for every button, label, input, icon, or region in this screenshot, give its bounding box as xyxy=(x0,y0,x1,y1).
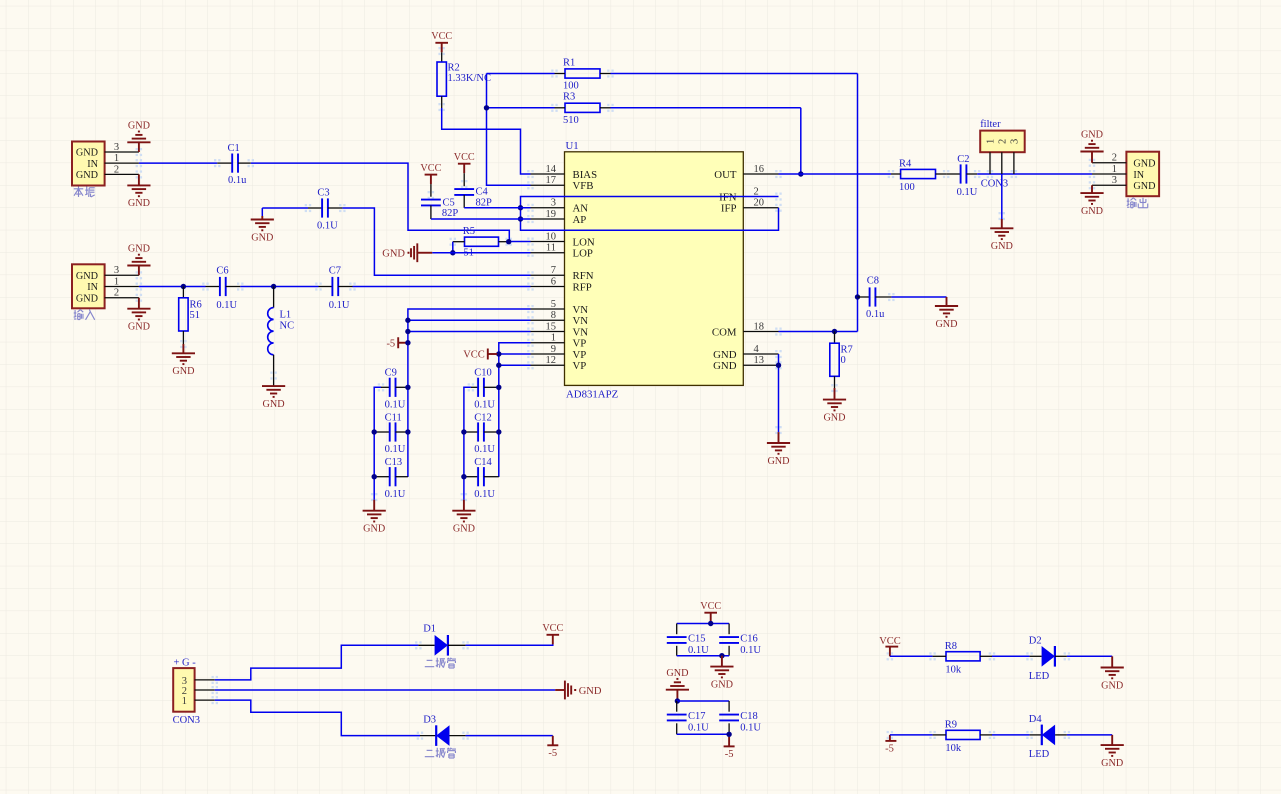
wire D2 to GND xyxy=(1067,656,1112,667)
resistor R3 510 xyxy=(555,92,611,126)
U1 pin 7 RFN (left) xyxy=(531,265,594,282)
wire LOP to pin11 xyxy=(432,252,530,254)
svg-text:GND: GND xyxy=(1101,758,1123,769)
connector 输出 (output) box xyxy=(1126,152,1159,197)
resistor R9 10k xyxy=(933,720,992,755)
svg-text:LOP: LOP xyxy=(573,248,593,260)
输入 pin 1 xyxy=(105,276,139,287)
wire CON3 pin2 to GND xyxy=(215,689,555,691)
CON3 pin 1 stub xyxy=(195,699,215,701)
wire R5 left to LOP net xyxy=(452,242,454,253)
svg-text:GND: GND xyxy=(363,524,385,535)
svg-text:20: 20 xyxy=(754,198,765,209)
ground GND right of C8 xyxy=(935,306,958,330)
power port -5 (D3) xyxy=(547,736,558,759)
svg-text:0.1U: 0.1U xyxy=(385,489,406,500)
svg-text:6: 6 xyxy=(551,276,556,287)
svg-text:-5: -5 xyxy=(885,744,894,755)
ground GND below 输入 pin2 xyxy=(127,298,150,333)
wire -5 to R9 xyxy=(890,734,933,736)
svg-text:LED: LED xyxy=(1029,671,1050,682)
capacitor C17 0.1U xyxy=(667,701,709,734)
svg-text:NC: NC xyxy=(280,321,295,332)
ground GND below U1 xyxy=(767,432,790,467)
svg-text:AN: AN xyxy=(573,203,589,215)
svg-text:GND: GND xyxy=(263,399,285,410)
wire C5 to AP pin19 xyxy=(431,218,531,220)
svg-text:GND: GND xyxy=(666,668,688,679)
power port -5 (VN rail) xyxy=(386,337,407,349)
svg-text:R9: R9 xyxy=(945,720,957,731)
wire OUT pin16 to R4 xyxy=(779,173,892,175)
svg-text:GND: GND xyxy=(128,244,150,255)
capacitor C15 0.1U xyxy=(667,624,709,657)
svg-text:4: 4 xyxy=(754,344,760,355)
label 输出 xyxy=(1127,198,1148,208)
输入 pin 2 xyxy=(105,288,139,299)
wire C1 to LON net xyxy=(251,163,510,241)
svg-text:1: 1 xyxy=(114,153,119,164)
capacitor C18 0.1U xyxy=(719,701,761,734)
label 二极管 (D1) xyxy=(425,658,456,668)
connector CON3 box xyxy=(173,657,200,726)
label 二极管 (D3) xyxy=(425,748,456,758)
junction C11 left xyxy=(372,429,377,434)
svg-text:1: 1 xyxy=(986,139,997,144)
power port VCC (VP rail) xyxy=(463,349,497,361)
wire 输入 IN to C6 xyxy=(139,286,206,288)
svg-text:2: 2 xyxy=(1112,153,1117,164)
capacitor C4 82P xyxy=(454,173,492,208)
svg-text:+ G -: + G - xyxy=(174,657,197,668)
wire VN pin8 xyxy=(408,319,531,321)
capacitor C16 0.1U xyxy=(719,624,761,657)
wire R3 right xyxy=(611,107,801,109)
power port VCC (R8) xyxy=(879,636,901,656)
wire C4 to AN pin3 xyxy=(464,207,530,209)
本振 pin 2 xyxy=(105,164,139,175)
op-amp U1 AD831APZ body xyxy=(565,140,744,401)
U1 pin 8 VN (left) xyxy=(531,310,589,327)
svg-text:GND: GND xyxy=(382,249,405,260)
wire R2 bottom to BIAS pin 14 xyxy=(442,96,531,174)
U1 pin 6 RFP (left) xyxy=(531,276,592,293)
ground GND below C16 xyxy=(710,656,733,691)
svg-text:GND: GND xyxy=(76,148,98,159)
wire C6 to C7 xyxy=(240,286,318,288)
svg-text:L1: L1 xyxy=(280,309,292,320)
svg-text:IN: IN xyxy=(87,159,98,170)
capacitor C2 0.1U xyxy=(946,154,978,198)
svg-text:GND: GND xyxy=(823,412,845,423)
svg-text:1: 1 xyxy=(182,696,187,707)
inductor L1 NC xyxy=(268,287,294,387)
U1 pin 14 BIAS (left) xyxy=(531,164,598,181)
wire GND rail (C15/C16) xyxy=(677,655,729,657)
junction -5 rail xyxy=(726,732,731,737)
svg-text:18: 18 xyxy=(754,321,765,332)
svg-text:51: 51 xyxy=(190,310,201,321)
svg-text:2: 2 xyxy=(997,139,1008,144)
junction OUT node xyxy=(798,171,803,176)
wire C9 left rail down xyxy=(374,387,381,499)
svg-text:1: 1 xyxy=(1112,164,1117,175)
wire VP rail vertical xyxy=(499,343,531,477)
U1 pin 3 AN (left) xyxy=(531,198,589,215)
U1 pin 2 IFN (right) xyxy=(719,186,759,203)
ground GND below C14 rail xyxy=(452,500,475,535)
resistor R5 51 xyxy=(453,226,509,258)
svg-text:1.33K/NC: 1.33K/NC xyxy=(448,73,491,84)
wire GND pins 4-13 xyxy=(778,354,780,432)
CON3 pin 2 stub xyxy=(195,689,215,691)
svg-text:VP: VP xyxy=(573,338,587,350)
power port VCC (C4) xyxy=(454,152,475,173)
svg-text:C9: C9 xyxy=(385,367,397,378)
输出 pin 3 xyxy=(1092,175,1126,186)
svg-text:OUT: OUT xyxy=(714,169,737,181)
svg-text:GND: GND xyxy=(251,232,273,243)
svg-text:GND: GND xyxy=(935,319,957,330)
U1 pin 13 GND (right) xyxy=(713,355,778,372)
resistor R8 10k xyxy=(933,641,992,676)
wire CON3 pin3 to D1 xyxy=(215,645,419,680)
svg-text:3: 3 xyxy=(551,198,556,209)
wire R1 left xyxy=(487,73,555,75)
svg-text:3: 3 xyxy=(114,142,119,153)
svg-text:VCC: VCC xyxy=(431,31,452,42)
svg-text:C11: C11 xyxy=(385,412,402,423)
svg-text:-5: -5 xyxy=(725,749,734,760)
svg-text:C4: C4 xyxy=(476,187,489,198)
diode D2 LED xyxy=(1029,636,1067,682)
capacitor C14 0.1U xyxy=(464,457,499,500)
capacitor C12 0.1U xyxy=(464,412,499,455)
svg-text:0.1U: 0.1U xyxy=(474,489,495,500)
svg-text:0.1u: 0.1u xyxy=(228,175,247,186)
capacitor C11 0.1U xyxy=(374,412,408,455)
U1 pin 18 COM (right) xyxy=(712,321,779,338)
svg-text:19: 19 xyxy=(546,209,557,220)
connector 本振 (local osc) box xyxy=(72,142,105,186)
svg-text:GND: GND xyxy=(1081,130,1103,141)
svg-text:0.1U: 0.1U xyxy=(688,645,709,656)
svg-text:LED: LED xyxy=(1029,749,1050,760)
label 输入 xyxy=(74,310,95,320)
svg-text:R2: R2 xyxy=(448,63,460,74)
svg-text:D3: D3 xyxy=(423,714,436,725)
svg-text:R4: R4 xyxy=(899,158,912,169)
capacitor C3 0.1U xyxy=(262,188,342,232)
junction LON/R5 xyxy=(506,239,511,244)
svg-text:filter: filter xyxy=(980,119,1001,130)
svg-text:C15: C15 xyxy=(688,633,706,644)
svg-text:GND: GND xyxy=(128,121,150,132)
svg-text:R5: R5 xyxy=(463,226,475,237)
svg-text:0.1u: 0.1u xyxy=(866,309,885,320)
svg-text:U1: U1 xyxy=(566,140,579,152)
svg-text:C1: C1 xyxy=(228,143,240,154)
CON3 pin 3 stub xyxy=(195,679,215,681)
svg-text:D2: D2 xyxy=(1029,636,1042,647)
ground GND above 输出 pin2 xyxy=(1080,130,1103,163)
wire COM pin18 xyxy=(779,331,858,333)
svg-text:GND: GND xyxy=(172,366,194,377)
junction markers layer xyxy=(136,47,1096,740)
junction pin13 xyxy=(776,363,781,368)
svg-text:C13: C13 xyxy=(385,457,403,468)
svg-text:0.1U: 0.1U xyxy=(329,300,350,311)
wire VCC to R8 xyxy=(890,655,933,657)
svg-text:0.1U: 0.1U xyxy=(957,187,978,198)
svg-text:10k: 10k xyxy=(945,665,962,676)
wire 本振 IN to C1 xyxy=(139,162,217,164)
svg-text:14: 14 xyxy=(546,164,557,175)
filter pin 2 to ground xyxy=(1001,152,1003,228)
svg-text:R3: R3 xyxy=(563,92,575,103)
svg-text:C6: C6 xyxy=(216,266,228,277)
svg-text:-5: -5 xyxy=(548,748,557,759)
wire -5 rail (C17/C18 bottom) xyxy=(677,733,729,735)
svg-text:11: 11 xyxy=(546,243,556,254)
svg-text:GND: GND xyxy=(579,686,602,697)
junction C8 tap xyxy=(855,294,860,299)
svg-text:RFP: RFP xyxy=(573,281,592,293)
svg-text:VCC: VCC xyxy=(879,636,901,647)
svg-text:D4: D4 xyxy=(1029,714,1043,725)
U1 pin 15 VN (left) xyxy=(531,321,589,338)
svg-text:IFP: IFP xyxy=(721,203,737,215)
junction GND rail xyxy=(719,653,724,658)
ground GND below 输出 pin3 xyxy=(1080,185,1103,217)
connector 输入 (input) box xyxy=(72,264,105,308)
wire VP pin9 xyxy=(499,353,531,355)
svg-text:0.1U: 0.1U xyxy=(216,300,237,311)
svg-text:2: 2 xyxy=(114,164,119,175)
svg-text:AP: AP xyxy=(573,214,587,226)
svg-text:C5: C5 xyxy=(443,197,455,208)
svg-text:VP: VP xyxy=(573,360,587,372)
svg-text:GND: GND xyxy=(128,322,150,333)
svg-text:GND: GND xyxy=(1101,680,1123,691)
svg-text:GND: GND xyxy=(76,271,98,282)
svg-text:3: 3 xyxy=(1112,175,1117,186)
本振 pin 1 xyxy=(105,153,139,164)
capacitor C9 0.1U xyxy=(381,367,408,410)
svg-text:100: 100 xyxy=(899,182,915,193)
diode D1 xyxy=(418,624,465,656)
power port GND (CON3) xyxy=(555,681,602,700)
svg-text:0.1U: 0.1U xyxy=(740,723,761,734)
svg-text:GND: GND xyxy=(1081,206,1103,217)
svg-text:COM: COM xyxy=(712,326,737,338)
capacitor C7 0.1U xyxy=(319,266,353,311)
svg-text:GND: GND xyxy=(76,170,98,181)
ground GND below C13 rail xyxy=(363,500,386,535)
junction LOP/R5 xyxy=(450,250,455,255)
svg-text:82P: 82P xyxy=(476,198,493,209)
svg-text:VFB: VFB xyxy=(573,180,594,192)
ground GND (C3) xyxy=(251,208,274,243)
node AP junction xyxy=(518,216,523,221)
svg-text:C10: C10 xyxy=(474,367,492,378)
svg-text:GND: GND xyxy=(453,524,475,535)
svg-text:0.1U: 0.1U xyxy=(740,645,761,656)
junction L1 tap xyxy=(271,284,276,289)
power port VCC (C5) xyxy=(420,163,441,184)
svg-text:9: 9 xyxy=(551,344,556,355)
svg-text:VP: VP xyxy=(573,349,587,361)
diode D3 xyxy=(420,714,466,746)
输入 pin 3 xyxy=(105,265,139,276)
svg-text:GND: GND xyxy=(76,293,98,304)
junction GND rail 2 xyxy=(675,698,680,703)
svg-text:16: 16 xyxy=(754,164,765,175)
svg-text:13: 13 xyxy=(754,355,765,366)
svg-text:17: 17 xyxy=(546,175,557,186)
svg-text:CON3: CON3 xyxy=(981,178,1008,189)
wire C2 to output connector xyxy=(977,173,1092,175)
ground GND above 本振 pin3 xyxy=(127,121,150,153)
svg-text:0.1U: 0.1U xyxy=(385,444,406,455)
power port -5 (C18) xyxy=(724,737,735,760)
U1 pin 16 OUT (right) xyxy=(714,164,778,181)
svg-text:0.1U: 0.1U xyxy=(385,399,406,410)
svg-text:GND: GND xyxy=(1133,181,1155,192)
svg-text:R7: R7 xyxy=(841,344,853,355)
wire R3 left xyxy=(487,107,555,109)
capacitor C13 0.1U xyxy=(374,457,408,500)
junction C12 right xyxy=(496,429,501,434)
capacitor C10 0.1U xyxy=(471,367,499,410)
capacitor C5 82P xyxy=(421,184,458,219)
本振 pin 3 xyxy=(105,142,139,153)
wire C7 to RFP pin6 xyxy=(353,286,531,288)
svg-text:VCC: VCC xyxy=(454,152,475,163)
svg-text:C2: C2 xyxy=(957,154,969,165)
wire CON3 pin1 to D3 xyxy=(215,700,420,736)
svg-text:IN: IN xyxy=(87,282,98,293)
wire IFN pin2 across to left bus xyxy=(521,197,779,231)
wire C3 to RFN pin7 xyxy=(342,208,530,275)
wire R9 to D4 xyxy=(992,734,1030,736)
ground GND below R6 xyxy=(172,344,195,377)
power port GND (LOP) xyxy=(382,243,432,262)
svg-text:IFN: IFN xyxy=(719,191,737,203)
wire VN rail xyxy=(408,309,531,477)
wire R1 right to vertical bus xyxy=(611,73,858,75)
junction VP12 xyxy=(496,363,501,368)
svg-text:2: 2 xyxy=(754,186,759,197)
wire LON junction to pin10 xyxy=(509,241,531,243)
svg-text:1: 1 xyxy=(551,333,556,344)
U1 pin 19 AP (left) xyxy=(531,209,587,226)
svg-text:2: 2 xyxy=(114,288,119,299)
junction C13 left xyxy=(372,474,377,479)
capacitor C1 0.1u xyxy=(217,143,251,186)
svg-text:C16: C16 xyxy=(740,633,758,644)
svg-text:GND: GND xyxy=(713,360,737,372)
U1 pin 20 IFP (right) xyxy=(721,198,779,215)
wire VCC to R2 xyxy=(441,52,443,62)
junction C10 right xyxy=(496,385,501,390)
svg-text:82P: 82P xyxy=(442,208,459,219)
svg-text:R1: R1 xyxy=(563,57,575,68)
svg-text:1: 1 xyxy=(114,276,119,287)
svg-text:0.1U: 0.1U xyxy=(688,723,709,734)
svg-text:10: 10 xyxy=(546,231,557,242)
filter pin 1 stub xyxy=(989,152,991,174)
diode D4 LED xyxy=(1029,714,1067,760)
junction R6 tap xyxy=(181,284,186,289)
svg-text:VN: VN xyxy=(573,315,589,327)
resistor R4 100 xyxy=(891,158,946,193)
svg-text:VCC: VCC xyxy=(420,163,441,174)
ground GND below filter xyxy=(990,228,1013,252)
svg-text:D1: D1 xyxy=(423,624,436,635)
svg-text:0: 0 xyxy=(841,355,846,366)
U1 pin 11 LOP (left) xyxy=(531,243,593,260)
resistor R2 1.33K/NC xyxy=(437,62,491,96)
junction C9 right xyxy=(405,385,410,390)
svg-text:12: 12 xyxy=(546,355,557,366)
svg-text:LON: LON xyxy=(573,236,595,248)
junction VN8 xyxy=(405,318,410,323)
node AN junction xyxy=(518,205,523,210)
U1 pin 10 LON (left) xyxy=(531,231,595,248)
resistor R6 51 xyxy=(179,287,202,345)
svg-text:GND: GND xyxy=(767,456,789,467)
junction C14 left xyxy=(461,474,466,479)
svg-text:0.1U: 0.1U xyxy=(317,220,338,231)
power port VCC (D1) xyxy=(542,623,563,644)
ground GND below 本振 pin2 xyxy=(127,174,150,209)
U1 pin 5 VN (left) xyxy=(531,299,589,316)
ground GND below L1 xyxy=(262,386,285,410)
power port -5 (R9) xyxy=(885,735,896,755)
svg-text:0.1U: 0.1U xyxy=(474,444,495,455)
svg-text:-5: -5 xyxy=(386,338,395,349)
svg-text:3: 3 xyxy=(1009,139,1020,144)
capacitor C6 0.1U xyxy=(206,266,241,311)
wire C10 left rail down xyxy=(464,387,471,499)
ground GND above 输入 pin3 xyxy=(127,244,150,276)
svg-text:VN: VN xyxy=(573,304,589,316)
wire R8 to D2 xyxy=(992,655,1030,657)
svg-text:510: 510 xyxy=(563,115,579,126)
wire rail (C17/C18 top) xyxy=(677,700,729,702)
svg-text:GND: GND xyxy=(713,349,737,361)
ground GND above C17 xyxy=(666,668,689,701)
svg-text:10k: 10k xyxy=(945,743,962,754)
U1 pin 4 GND (right) xyxy=(713,344,778,361)
svg-text:15: 15 xyxy=(546,321,557,332)
svg-text:AD831APZ: AD831APZ xyxy=(566,389,618,401)
svg-text:GND: GND xyxy=(128,198,150,209)
junction R3/VFB xyxy=(484,105,489,110)
ground GND below R7 xyxy=(823,388,846,423)
svg-text:GND: GND xyxy=(991,241,1013,252)
U1 pin 12 VP (left) xyxy=(531,355,587,372)
junction -5 xyxy=(405,340,410,345)
svg-text:C12: C12 xyxy=(474,412,492,423)
svg-text:R6: R6 xyxy=(190,299,202,310)
resistor R1 100 xyxy=(555,57,611,91)
svg-text:VCC: VCC xyxy=(700,601,721,612)
svg-text:GND: GND xyxy=(1133,159,1155,170)
svg-text:RFN: RFN xyxy=(573,270,594,282)
svg-text:IN: IN xyxy=(1133,170,1144,181)
